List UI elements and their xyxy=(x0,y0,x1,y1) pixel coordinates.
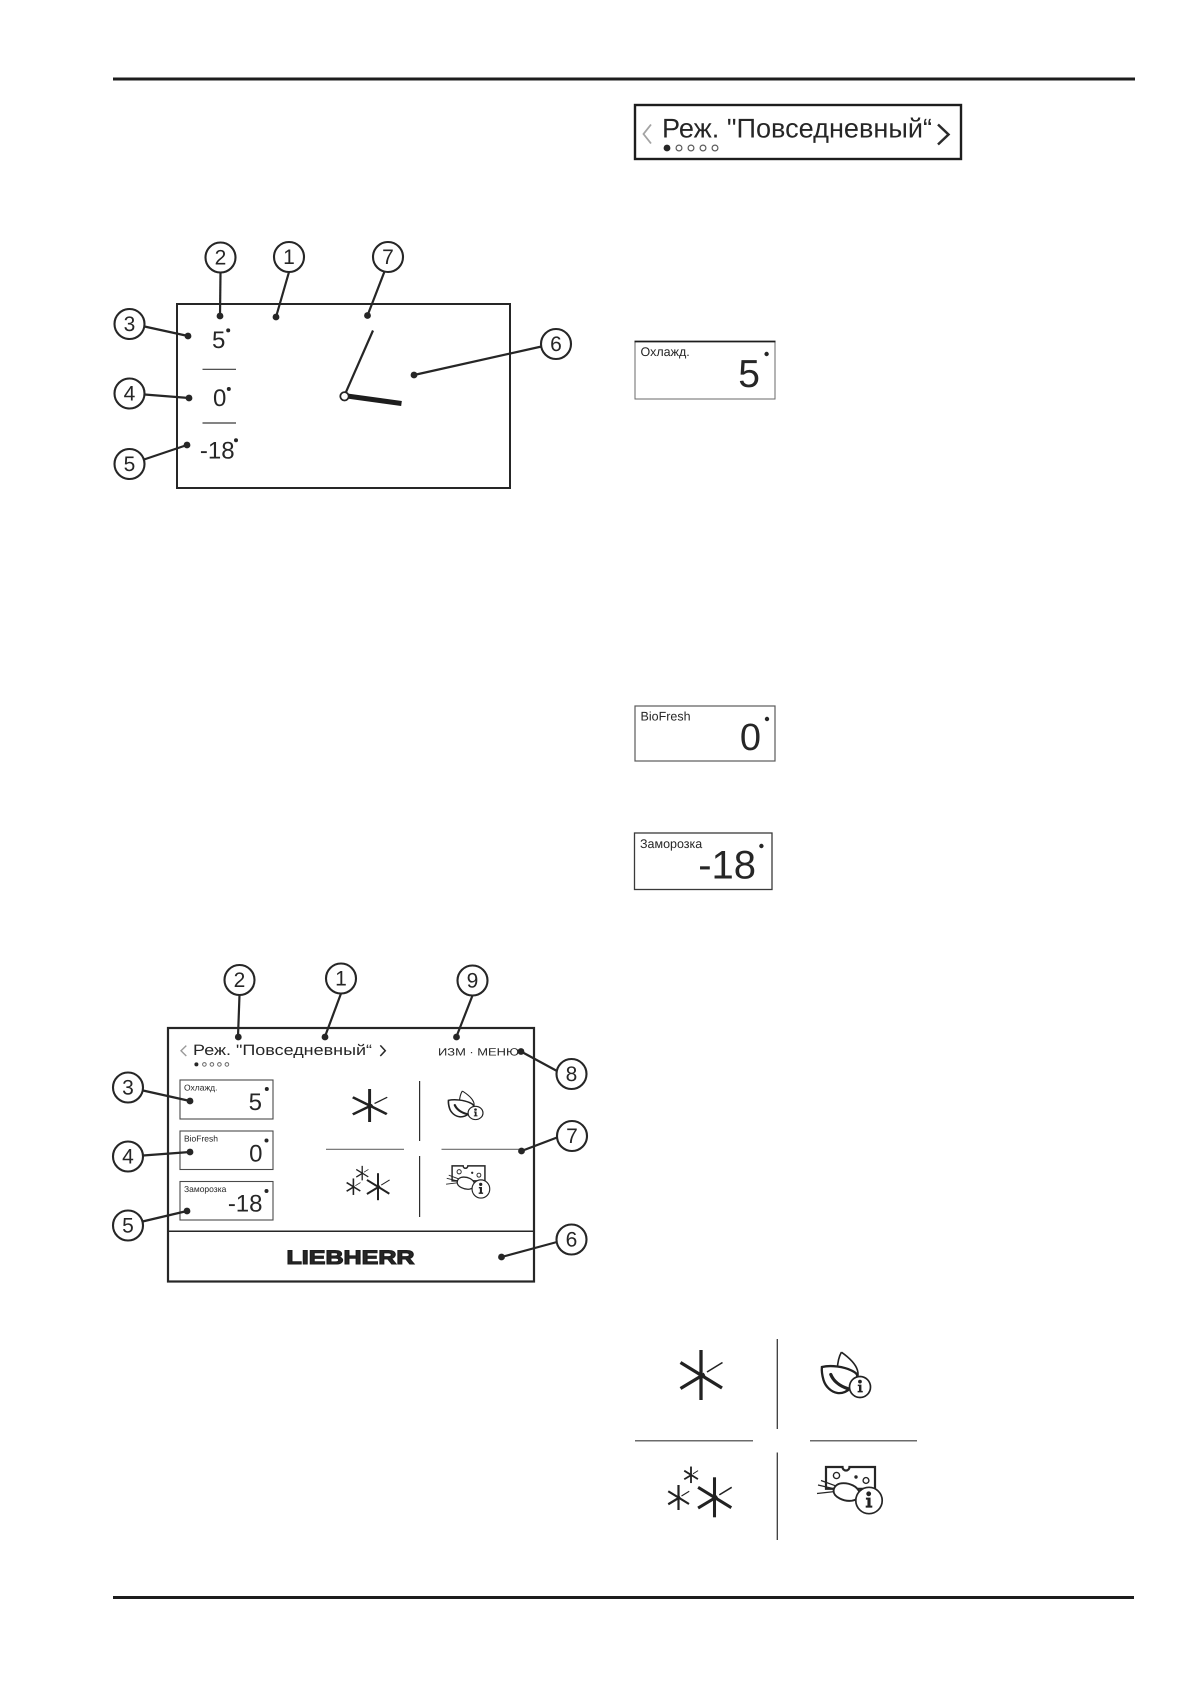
svg-text:5: 5 xyxy=(738,353,760,396)
leader 6 xyxy=(414,347,542,376)
svg-text:5: 5 xyxy=(124,453,136,476)
svg-text:Охлажд.: Охлажд. xyxy=(184,1083,217,1093)
callout 1 xyxy=(274,242,304,272)
svg-text:2: 2 xyxy=(234,969,246,992)
callout 2 xyxy=(225,965,255,995)
svg-text:6: 6 xyxy=(566,1229,578,1252)
svg-text:BioFresh: BioFresh xyxy=(184,1134,218,1144)
svg-text:4: 4 xyxy=(122,1146,134,1169)
pointer needle thin arm xyxy=(346,331,373,393)
mode box frame xyxy=(635,105,961,159)
callout 9 xyxy=(458,966,488,996)
svg-text:2: 2 xyxy=(215,247,227,270)
leader 6 xyxy=(502,1242,558,1257)
mini double snowflake icon xyxy=(347,1166,390,1200)
callout 3 xyxy=(115,309,145,339)
biofresh box xyxy=(635,706,775,761)
svg-text:Заморозка: Заморозка xyxy=(184,1184,227,1194)
large cheese icon xyxy=(817,1467,882,1514)
svg-text:-18: -18 xyxy=(698,844,756,888)
grid divider vertical xyxy=(776,1339,778,1429)
svg-text:5: 5 xyxy=(249,1089,262,1116)
leader 1 xyxy=(276,272,289,317)
left chevron xyxy=(644,125,652,144)
display frame xyxy=(177,304,510,488)
leader 7 xyxy=(522,1138,558,1152)
svg-text:0: 0 xyxy=(249,1141,262,1168)
leader 9 xyxy=(457,996,473,1037)
display frame xyxy=(168,1028,534,1282)
svg-text:Заморозка: Заморозка xyxy=(640,837,702,851)
leader 3 xyxy=(143,1091,190,1102)
mini biofresh box xyxy=(180,1131,273,1170)
leader 1 xyxy=(325,994,341,1037)
leader 5 xyxy=(143,1211,188,1222)
DIAGRAM1 xyxy=(115,242,572,488)
right chevron xyxy=(938,125,949,145)
svg-text:9: 9 xyxy=(467,970,479,993)
bottom rule xyxy=(113,1596,1134,1599)
svg-text:ИЗМ · МЕНЮ: ИЗМ · МЕНЮ xyxy=(438,1047,519,1059)
svg-text:Реж. "Повседневный“: Реж. "Повседневный“ xyxy=(662,114,932,144)
mini freeze box xyxy=(180,1182,273,1221)
callout 6 xyxy=(557,1225,587,1255)
svg-text:1: 1 xyxy=(283,246,295,269)
svg-text:-18: -18 xyxy=(200,437,235,464)
callout 2 xyxy=(206,243,236,273)
large snowflake icon xyxy=(681,1350,723,1400)
large double snowflake icon xyxy=(668,1467,731,1518)
header right chevron xyxy=(380,1045,385,1056)
freeze box xyxy=(635,833,773,890)
icon divider vertical xyxy=(419,1081,421,1141)
logo band line xyxy=(169,1230,533,1232)
large leaf icon xyxy=(822,1352,871,1397)
callout 3 xyxy=(113,1073,143,1103)
leader 4 xyxy=(143,1152,190,1156)
svg-text:BioFresh: BioFresh xyxy=(641,710,691,724)
separator line b xyxy=(203,422,237,424)
callout 4 xyxy=(115,379,145,409)
svg-text:Охлажд.: Охлажд. xyxy=(641,345,690,359)
callout 4 xyxy=(113,1142,143,1172)
callout 5 xyxy=(115,449,145,479)
ICONGRID xyxy=(635,1339,917,1540)
icon divider horizontal xyxy=(326,1148,404,1150)
svg-text:3: 3 xyxy=(124,313,136,336)
leader 3 xyxy=(145,327,189,337)
leader 8 xyxy=(521,1052,557,1072)
leader 2 xyxy=(238,995,240,1037)
mini cool box xyxy=(180,1080,273,1119)
callout 6 xyxy=(541,329,571,359)
leader 2 xyxy=(219,273,222,317)
pointer needle hand xyxy=(347,396,402,404)
callout 7 xyxy=(557,1121,587,1151)
page dots xyxy=(664,145,671,152)
DIAGRAM2 xyxy=(113,964,587,1282)
mini snowflake icon xyxy=(353,1089,387,1122)
svg-text:0: 0 xyxy=(213,385,226,412)
svg-text:Реж. "Повседневный“: Реж. "Повседневный“ xyxy=(193,1042,372,1059)
svg-text:0: 0 xyxy=(740,717,761,759)
leader 5 xyxy=(144,445,187,460)
leader 4 xyxy=(145,395,190,399)
header page dots xyxy=(194,1062,198,1066)
mini leaf icon xyxy=(448,1091,483,1120)
svg-text:3: 3 xyxy=(122,1077,134,1100)
svg-text:8: 8 xyxy=(566,1063,578,1086)
header left chevron xyxy=(181,1046,186,1056)
mini cheese icon xyxy=(446,1166,490,1198)
callout 7 xyxy=(373,242,403,272)
MODE-HEADER-BOX xyxy=(635,105,961,159)
svg-text:1: 1 xyxy=(335,968,347,991)
callout 8 xyxy=(557,1059,587,1089)
grid divider horizontal xyxy=(635,1440,753,1442)
svg-text:4: 4 xyxy=(124,383,136,406)
svg-text:5: 5 xyxy=(122,1215,134,1238)
leader 7 xyxy=(368,272,385,316)
cool box xyxy=(635,342,775,400)
separator line a xyxy=(203,368,237,370)
svg-text:LIEBHERR: LIEBHERR xyxy=(287,1247,415,1269)
svg-text:-18: -18 xyxy=(228,1191,263,1218)
top rule xyxy=(113,78,1135,81)
callout 5 xyxy=(113,1211,143,1241)
RIGHTBOXES xyxy=(635,342,776,890)
callout 1 xyxy=(326,964,356,994)
pointer pivot xyxy=(340,392,348,400)
svg-text:7: 7 xyxy=(382,246,394,269)
svg-text:5: 5 xyxy=(212,327,225,354)
svg-text:6: 6 xyxy=(550,333,562,356)
svg-text:7: 7 xyxy=(566,1125,578,1148)
